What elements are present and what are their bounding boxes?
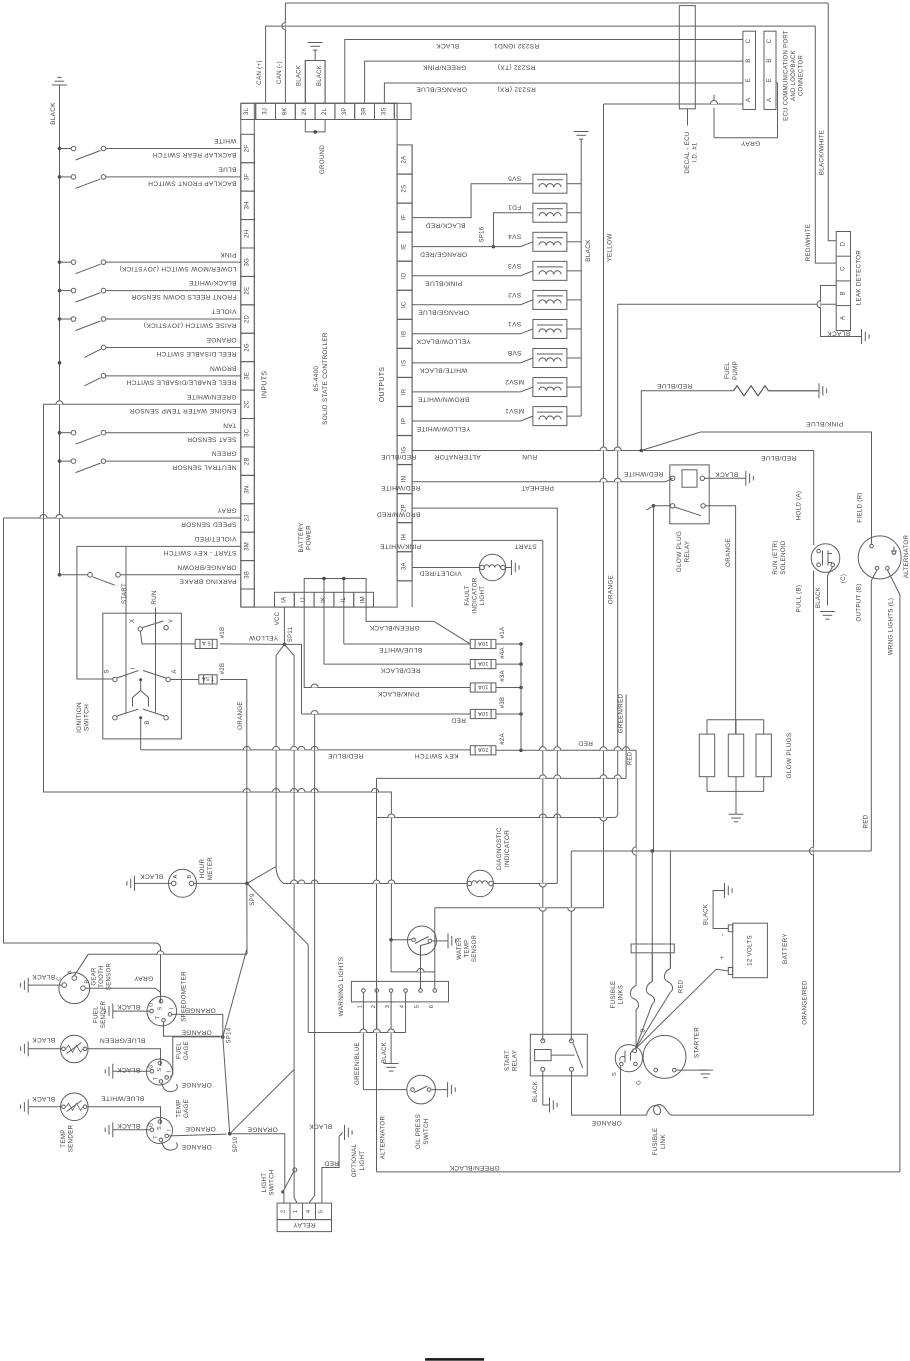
svg-text:#1B: #1B xyxy=(220,627,226,639)
svg-text:WHITE: WHITE xyxy=(213,137,236,144)
svg-text:B: B xyxy=(187,874,193,878)
glow plugs ground xyxy=(735,791,737,814)
wire alternator column xyxy=(376,778,378,1172)
coil FD1 xyxy=(533,203,567,222)
svg-text:3: 3 xyxy=(385,1005,391,1009)
run solenoid circle xyxy=(811,544,840,573)
svg-text:4: 4 xyxy=(400,1004,406,1008)
wire 2C long run down-right to water temp sensor xyxy=(44,404,392,940)
leak detector B ground wire BLACK xyxy=(821,286,862,337)
svg-text:SWITCH: SWITCH xyxy=(269,1169,276,1195)
ECU decal connector rectangle xyxy=(679,6,695,109)
input wire 2C engine water temp sensor xyxy=(44,403,241,405)
svg-text:RED: RED xyxy=(451,716,466,723)
ignition X to 5A fuse xyxy=(140,631,194,644)
svg-text:RED/BLUE: RED/BLUE xyxy=(657,382,693,389)
svg-text:#3B: #3B xyxy=(500,697,506,709)
fuse output bus xyxy=(496,643,521,645)
svg-text:BLACK: BLACK xyxy=(309,1122,332,1129)
ECU comm port connector strip 2 xyxy=(764,31,776,109)
svg-text:10A: 10A xyxy=(478,683,489,689)
svg-text:RED/WHITE: RED/WHITE xyxy=(805,224,812,261)
svg-text:3F: 3F xyxy=(245,173,251,181)
VCC node branch right then down xyxy=(284,644,301,714)
water temp sensor xyxy=(408,926,437,955)
svg-text:INDICATOR: INDICATOR xyxy=(472,577,479,613)
svg-text:SP11: SP11 xyxy=(288,626,294,642)
svg-text:FRONT REELS DOWN SENSOR: FRONT REELS DOWN SENSOR xyxy=(131,293,236,300)
svg-text:ID: ID xyxy=(402,272,408,279)
SP14 to fuel gauge I xyxy=(170,1037,223,1078)
coil SV4 xyxy=(533,232,567,251)
svg-text:I: I xyxy=(167,1071,173,1073)
svg-text:(C): (C) xyxy=(840,574,847,584)
svg-text:SV1: SV1 xyxy=(508,320,521,327)
input switch 3B parking brake xyxy=(58,573,62,577)
glow relay contacts xyxy=(670,504,674,508)
relay pin4 wire from RED row xyxy=(309,714,315,1203)
alternator circle xyxy=(858,536,901,579)
svg-text:BACKLAP FRONT SWITCH: BACKLAP FRONT SWITCH xyxy=(148,180,237,187)
svg-text:A: A xyxy=(746,98,752,102)
wire IN PREHEAT RED/WHITE xyxy=(412,481,665,483)
coil MSV1 xyxy=(533,407,567,426)
svg-text:E: E xyxy=(746,78,752,82)
svg-text:SP10: SP10 xyxy=(233,1136,239,1152)
svg-text:PARKING BRAKE: PARKING BRAKE xyxy=(179,577,237,584)
svg-text:SPEED SENSOR: SPEED SENSOR xyxy=(181,521,237,528)
RED row down to start relay contact xyxy=(570,851,572,1041)
svg-text:PINK/BLUE: PINK/BLUE xyxy=(425,280,462,287)
svg-text:S: S xyxy=(158,1006,164,1010)
svg-text:C: C xyxy=(57,976,63,981)
temp sender ground BLACK xyxy=(28,1106,61,1108)
svg-text:A: A xyxy=(767,98,773,102)
svg-text:GLOW PLUG: GLOW PLUG xyxy=(676,531,683,572)
svg-text:ALTERNATOR: ALTERNATOR xyxy=(380,1115,387,1159)
svg-text:FUEL: FUEL xyxy=(93,1006,100,1023)
gear tooth sensor xyxy=(59,973,90,1004)
fuel gauge ground BLACK xyxy=(113,1070,150,1072)
svg-text:START - KEY SWITCH: START - KEY SWITCH xyxy=(163,549,236,556)
svg-text:TEMP: TEMP xyxy=(465,940,471,958)
svg-text:RED/BLUE: RED/BLUE xyxy=(328,752,364,759)
speedometer T wire to SP14 row xyxy=(164,1022,221,1036)
svg-text:10A: 10A xyxy=(478,660,489,666)
svg-text:RED/BLUE: RED/BLUE xyxy=(761,454,797,461)
start relay coil xyxy=(535,1050,552,1061)
fusible link loop xyxy=(647,1105,673,1115)
svg-text:1: 1 xyxy=(293,1210,299,1214)
svg-text:BLACK: BLACK xyxy=(32,1036,55,1043)
svg-text:INPUTS: INPUTS xyxy=(262,371,269,398)
ground for fault light xyxy=(511,560,513,575)
svg-text:3A: 3A xyxy=(402,562,408,570)
wire leak detector A long run left xyxy=(618,303,837,305)
warning pins 1-4 wires xyxy=(362,993,364,1090)
svg-text:SEAT SENSOR: SEAT SENSOR xyxy=(187,435,237,442)
YELLOW wire through decal to comm port A xyxy=(604,103,743,105)
svg-text:2L: 2L xyxy=(322,107,328,115)
svg-text:RELAY: RELAY xyxy=(684,540,691,562)
glow plugs bottom bus xyxy=(707,790,764,792)
svg-text:IC: IC xyxy=(402,301,408,308)
svg-text:X: X xyxy=(130,619,136,623)
svg-text:FD1: FD1 xyxy=(508,204,521,211)
svg-text:GREEN/PINK: GREEN/PINK xyxy=(422,64,466,71)
svg-text:SOLENOID: SOLENOID xyxy=(780,540,787,575)
svg-text:IF: IF xyxy=(402,215,408,221)
controller top pin row 3L 3J 9K 2K 2L 3P 3R 3S xyxy=(241,102,397,104)
wire IJ PINK/BLACK xyxy=(304,607,470,687)
svg-text:S: S xyxy=(157,1067,163,1071)
svg-text:3R: 3R xyxy=(362,107,368,116)
2K 2L ground bracket below pin row xyxy=(305,120,325,132)
speedometer ground BLACK xyxy=(113,1010,150,1012)
svg-text:RUN: RUN xyxy=(522,453,537,460)
svg-text:RUN (ETR): RUN (ETR) xyxy=(772,540,779,574)
svg-text:CAN (+): CAN (+) xyxy=(256,60,263,85)
svg-text:BLACK: BLACK xyxy=(816,587,822,608)
svg-text:2H: 2H xyxy=(245,230,251,238)
svg-text:OPTIONAL: OPTIONAL xyxy=(351,1143,358,1177)
svg-text:SENDER: SENDER xyxy=(68,1124,75,1152)
fault indicator light xyxy=(479,554,505,580)
svg-text:IB: IB xyxy=(402,331,408,337)
svg-text:BROWN: BROWN xyxy=(210,364,237,371)
svg-text:VIOLET/RED: VIOLET/RED xyxy=(419,570,461,577)
wire ID PINK/BLUE to SV3 xyxy=(412,271,533,276)
svg-text:HOLD (A): HOLD (A) xyxy=(796,491,803,521)
svg-text:MSV2: MSV2 xyxy=(505,378,524,385)
wire IH down to start relay coil xyxy=(542,540,544,1041)
wire IA VCC down to yellow node xyxy=(283,607,285,644)
wire IP YELLOW/WHITE to MSV1 xyxy=(412,416,533,421)
svg-text:2F: 2F xyxy=(245,145,251,153)
wire HOLD(A) down to run solenoid xyxy=(813,451,815,546)
ground for left bus xyxy=(52,84,67,86)
svg-text:B: B xyxy=(641,1028,647,1032)
re-draw fusible verticals through rect xyxy=(635,944,637,986)
svg-text:RED: RED xyxy=(628,751,634,765)
ORANGE wire from 7.5A fuse down xyxy=(220,680,247,884)
top row empty end box xyxy=(394,103,411,119)
svg-text:1: 1 xyxy=(357,1005,363,1009)
input switch 3C seat sensor xyxy=(58,431,62,435)
svg-text:SV2: SV2 xyxy=(508,291,521,298)
glow plugs xyxy=(699,734,714,777)
svg-text:ORANGE/RED: ORANGE/RED xyxy=(420,250,467,257)
svg-text:VCC: VCC xyxy=(275,611,281,625)
coil SV2 xyxy=(533,290,567,309)
svg-text:C: C xyxy=(746,38,752,43)
wire IC ORANGE/BLUE to SV2 xyxy=(412,300,533,305)
fuse #4A 10A xyxy=(344,643,471,645)
svg-text:BLUE/GREEN: BLUE/GREEN xyxy=(100,1036,146,1043)
row 817 to alternator line xyxy=(377,817,615,819)
svg-text:3J: 3J xyxy=(263,108,269,115)
svg-text:BLACK: BLACK xyxy=(585,239,592,262)
fuel sender xyxy=(61,1035,89,1063)
wire 2J long run down to speedometer xyxy=(4,518,156,943)
fuel pump circuit xyxy=(641,391,733,451)
fuel gauge orange loop xyxy=(162,1083,177,1091)
svg-text:B: B xyxy=(145,720,151,724)
svg-text:5: 5 xyxy=(415,1005,421,1009)
svg-text:BLACK: BLACK xyxy=(715,471,738,478)
svg-text:RS232 (TX): RS232 (TX) xyxy=(498,64,536,71)
svg-text:YELLOW: YELLOW xyxy=(607,233,614,262)
fuse #1A 10A xyxy=(434,621,470,644)
svg-text:RED/WHITE: RED/WHITE xyxy=(380,484,420,491)
svg-text:GLOW PLUGS: GLOW PLUGS xyxy=(786,733,793,779)
START wire into ignition xyxy=(125,546,127,712)
svg-text:2D: 2D xyxy=(245,315,251,324)
wire PULL B down xyxy=(813,571,815,1115)
svg-text:A: A xyxy=(840,316,846,320)
bottom page marker line xyxy=(425,1358,484,1361)
warning pin6 wire up to row 907 xyxy=(434,908,436,989)
svg-text:C: C xyxy=(840,266,846,271)
svg-text:BLACK: BLACK xyxy=(117,1066,140,1073)
fusible link S-bumps xyxy=(630,986,638,1048)
solenoid C ground wire BLACK xyxy=(828,567,833,606)
wire KEY SWITCH ignition feed row xyxy=(141,749,471,751)
svg-text:RAISE SWITCH (JOYSTICK): RAISE SWITCH (JOYSTICK) xyxy=(144,322,237,329)
wire IR BROWN/WHITE to MSV2 xyxy=(412,387,533,392)
svg-text:3C: 3C xyxy=(245,428,251,437)
svg-text:#2B: #2B xyxy=(220,663,226,675)
ignition switch box xyxy=(103,613,182,739)
splice SP9 xyxy=(245,882,249,886)
svg-text:G: G xyxy=(149,1123,155,1128)
water temp sensor ground xyxy=(432,940,448,942)
svg-text:I: I xyxy=(131,667,137,669)
svg-text:I: I xyxy=(170,1008,176,1010)
svg-text:ECU COMMUNICATION PORT: ECU COMMUNICATION PORT xyxy=(784,30,790,121)
input switch 2E front reels down sensor xyxy=(58,289,62,293)
svg-text:GEAR: GEAR xyxy=(92,967,98,986)
fuse 5A #1B xyxy=(195,639,217,648)
svg-text:WARNING LIGHTS: WARNING LIGHTS xyxy=(338,957,345,1017)
splice SP14 xyxy=(221,1035,225,1039)
key RED wire down right side xyxy=(635,750,637,944)
coil SV5 xyxy=(533,174,567,193)
diag row continues right to 2P feed corner xyxy=(493,883,557,885)
RUN wire inside ignition xyxy=(155,608,157,713)
temp sender xyxy=(61,1093,89,1121)
svg-text:GREEN/BLACK: GREEN/BLACK xyxy=(449,1164,500,1171)
wire 2P BROWN/RED to diagnostic indicator xyxy=(412,508,557,883)
svg-text:LIGHT: LIGHT xyxy=(479,586,486,606)
svg-text:TAN: TAN xyxy=(223,421,237,428)
svg-text:RED: RED xyxy=(679,979,685,993)
hour meter wire to SP9 xyxy=(194,882,247,884)
svg-text:YELLOW/WHITE: YELLOW/WHITE xyxy=(416,425,470,432)
optional light ground BLACK xyxy=(339,1133,342,1137)
wire RED row to fuse #3B xyxy=(302,713,471,715)
svg-text:10A: 10A xyxy=(478,710,489,716)
svg-text:WHITE/BLACK: WHITE/BLACK xyxy=(419,367,467,374)
input switch 2F backlap rear switch xyxy=(58,147,62,151)
svg-text:ORANGE: ORANGE xyxy=(181,1143,212,1150)
input switch 3F backlap front switch xyxy=(58,175,62,179)
svg-text:VIOLET/RED: VIOLET/RED xyxy=(194,535,236,542)
svg-text:ALTERNATOR: ALTERNATOR xyxy=(903,534,910,578)
wire IS WHITE/BLACK to SVB xyxy=(412,358,533,363)
wire IH START PINK/WHITE xyxy=(412,539,543,541)
svg-text:WATER: WATER xyxy=(457,937,463,960)
fuse #3B 10A xyxy=(470,709,496,718)
svg-text:3H: 3H xyxy=(245,201,251,209)
svg-text:20A: 20A xyxy=(478,746,489,752)
wire 3R RS232 TX xyxy=(365,61,743,103)
svg-text:2S: 2S xyxy=(402,185,408,193)
svg-text:B: B xyxy=(840,291,846,295)
light switch to relay pin 2 xyxy=(283,1192,285,1203)
svg-text:GRAY: GRAY xyxy=(741,139,761,146)
svg-text:TOOTH: TOOTH xyxy=(99,965,105,987)
svg-text:MSV1: MSV1 xyxy=(505,407,524,414)
svg-text:S: S xyxy=(105,669,111,673)
svg-text:RED: RED xyxy=(324,1160,339,1167)
svg-text:PUMP: PUMP xyxy=(732,361,739,380)
svg-text:SP16: SP16 xyxy=(480,226,486,242)
svg-text:#2A: #2A xyxy=(500,733,506,745)
hour meter ground BLACK xyxy=(135,882,172,884)
svg-text:BLUE: BLUE xyxy=(218,166,237,173)
wire IB YELLOW/BLACK to SV1 xyxy=(412,329,533,334)
svg-text:GROUND: GROUND xyxy=(319,145,326,175)
svg-text:FUSIBLE: FUSIBLE xyxy=(610,981,617,1009)
svg-text:2: 2 xyxy=(281,1210,287,1214)
svg-text:IR: IR xyxy=(402,388,408,395)
RED bus vertical glow circuit xyxy=(669,850,671,852)
svg-text:4: 4 xyxy=(306,1209,312,1213)
fuel gauge xyxy=(147,1059,173,1085)
svg-text:GAGE: GAGE xyxy=(183,1041,190,1060)
coil MSV2 xyxy=(533,378,567,397)
solid state controller U1 body xyxy=(254,103,397,607)
svg-text:GREEN/BLUE: GREEN/BLUE xyxy=(354,1042,361,1085)
fusible links three verticals xyxy=(651,851,653,982)
svg-text:START: START xyxy=(514,543,537,550)
wire 3A VIOLET/RED to fault light xyxy=(412,567,479,569)
fuel sender ground BLACK xyxy=(28,1048,61,1050)
svg-text:LINK: LINK xyxy=(660,1133,667,1149)
ignition A to 7.5A fuse xyxy=(170,679,198,681)
water temp sensor branch to warning pin 6 xyxy=(391,940,435,972)
svg-text:KEY SWITCH: KEY SWITCH xyxy=(415,752,459,759)
svg-text:3E: 3E xyxy=(245,372,251,380)
wire RED battery feed from 20A fuse xyxy=(521,749,636,751)
coil SVB xyxy=(533,349,567,368)
svg-text:BLACK/WHITE: BLACK/WHITE xyxy=(819,130,826,175)
wire 3S RS232 RX to comm port E xyxy=(384,83,743,103)
svg-text:2C: 2C xyxy=(245,400,251,409)
temp gauge xyxy=(147,1118,173,1144)
starter solenoid xyxy=(615,1045,642,1072)
svg-text:A: A xyxy=(172,669,178,673)
svg-text:BLACK: BLACK xyxy=(317,65,323,86)
battery plus wire to starter xyxy=(716,969,728,971)
svg-text:BLACK: BLACK xyxy=(117,1003,140,1010)
svg-text:9K: 9K xyxy=(282,107,288,115)
svg-text:3P: 3P xyxy=(342,107,348,115)
gear sensor B wire GRAY xyxy=(85,988,160,992)
svg-text:BATTERY: BATTERY xyxy=(782,933,789,964)
svg-text:SENDER: SENDER xyxy=(100,1000,107,1028)
fuse #2A 20A xyxy=(470,746,496,755)
svg-text:RUN: RUN xyxy=(151,590,158,604)
wire IK RED/BLACK xyxy=(324,607,470,664)
starter B node fan xyxy=(633,1049,637,1053)
svg-text:G: G xyxy=(637,1080,643,1085)
svg-text:ORANGE: ORANGE xyxy=(591,1119,622,1126)
svg-text:RS232 IGND1: RS232 IGND1 xyxy=(494,42,539,49)
controller right pin column xyxy=(411,145,413,607)
coil SV1 xyxy=(533,319,567,338)
svg-text:LIGHT: LIGHT xyxy=(359,1151,366,1171)
svg-text:ORANGE: ORANGE xyxy=(237,701,244,730)
svg-text:SWITCH: SWITCH xyxy=(423,1118,430,1144)
svg-text:#4A: #4A xyxy=(500,647,506,659)
svg-text:3S: 3S xyxy=(381,107,387,115)
svg-text:6: 6 xyxy=(429,1005,435,1009)
yellow branch down-right to relay pin 1 xyxy=(284,644,297,1203)
glow relay contact feed from RED bus xyxy=(653,506,655,851)
svg-text:BATTERY: BATTERY xyxy=(298,522,305,552)
svg-text:T: T xyxy=(156,1015,162,1019)
svg-text:2: 2 xyxy=(371,1005,377,1009)
svg-text:A: A xyxy=(173,874,179,878)
svg-text:ORANGE: ORANGE xyxy=(181,1081,212,1088)
glow plug relay box xyxy=(670,465,709,524)
svg-text:GRAY: GRAY xyxy=(217,507,237,514)
temp gauge orange loop xyxy=(162,1142,177,1150)
fuse 7.5A #2B xyxy=(199,675,217,684)
svg-text:DIAGNOSTIC: DIAGNOSTIC xyxy=(496,827,503,870)
svg-text:#1A: #1A xyxy=(500,627,506,639)
svg-text:ORANGE/RED: ORANGE/RED xyxy=(802,980,809,1025)
light switch xyxy=(281,1190,284,1193)
svg-text:10A: 10A xyxy=(478,640,489,646)
svg-text:S: S xyxy=(612,1072,618,1076)
svg-text:2B: 2B xyxy=(245,457,251,465)
svg-text:ORANGE/BLUE: ORANGE/BLUE xyxy=(416,85,467,92)
svg-text:C: C xyxy=(767,38,773,43)
svg-text:BLUE/WHITE: BLUE/WHITE xyxy=(101,1095,145,1102)
svg-text:IE: IE xyxy=(402,244,408,250)
battery power bracket IJ IK IL IM xyxy=(304,579,366,608)
svg-text:BROWN/WHITE: BROWN/WHITE xyxy=(417,396,469,403)
svg-text:RED: RED xyxy=(578,739,593,746)
ground for coil BLACK bus xyxy=(574,131,589,133)
svg-text:GAGE: GAGE xyxy=(183,1099,190,1118)
svg-text:BLACK: BLACK xyxy=(50,102,57,125)
svg-text:+: + xyxy=(719,955,726,959)
fuse #3A 10A xyxy=(470,683,496,692)
svg-text:PULL (B): PULL (B) xyxy=(796,585,803,613)
svg-text:START: START xyxy=(121,583,128,604)
svg-text:BLACK: BLACK xyxy=(32,973,55,980)
svg-text:2K: 2K xyxy=(302,107,308,115)
svg-text:BACKLAP REAR SWITCH: BACKLAP REAR SWITCH xyxy=(153,151,237,158)
svg-text:TEMP: TEMP xyxy=(60,1129,67,1147)
svg-text:METER: METER xyxy=(207,857,214,880)
glow relay coil ground wire BLACK xyxy=(705,477,746,479)
SP10 wire ORANGE to light switch xyxy=(230,1134,285,1190)
